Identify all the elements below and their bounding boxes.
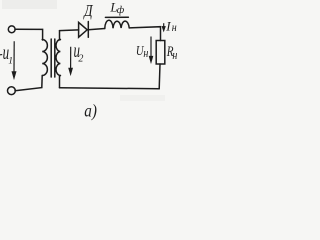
svg-text:Д: Д xyxy=(82,1,93,20)
svg-text:ф: ф xyxy=(117,5,125,16)
svg-text:а): а) xyxy=(84,100,97,121)
svg-text:н: н xyxy=(172,21,177,34)
svg-text:н: н xyxy=(172,48,177,63)
svg-text:I: I xyxy=(165,19,171,34)
svg-text:1: 1 xyxy=(8,56,13,66)
svg-text:2: 2 xyxy=(78,53,83,64)
svg-text:н: н xyxy=(143,46,148,61)
